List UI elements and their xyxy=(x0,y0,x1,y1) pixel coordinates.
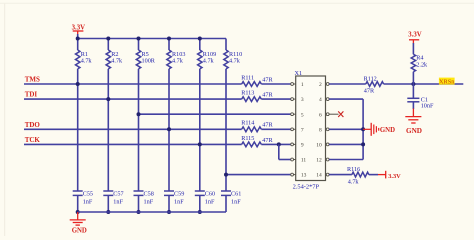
svg-text:C60: C60 xyxy=(205,190,215,197)
svg-text:3.3V: 3.3V xyxy=(72,24,85,31)
svg-text:GND: GND xyxy=(406,127,422,135)
svg-text:10: 10 xyxy=(316,143,322,149)
svg-text:4.7k: 4.7k xyxy=(172,58,184,65)
svg-text:R115: R115 xyxy=(241,135,254,142)
svg-text:9: 9 xyxy=(301,143,304,149)
svg-text:47R: 47R xyxy=(364,87,375,94)
svg-text:4.7k: 4.7k xyxy=(229,58,241,65)
svg-text:X1: X1 xyxy=(295,70,303,77)
svg-text:TDO: TDO xyxy=(25,121,41,129)
svg-text:47R: 47R xyxy=(262,76,273,83)
svg-text:3: 3 xyxy=(301,97,304,103)
svg-text:1: 1 xyxy=(301,82,304,88)
svg-text:TDI: TDI xyxy=(25,91,38,99)
svg-text:R116: R116 xyxy=(347,166,360,173)
svg-text:6: 6 xyxy=(319,112,322,118)
svg-text:47R: 47R xyxy=(262,122,273,129)
svg-text:1nF: 1nF xyxy=(174,198,184,205)
svg-text:47R: 47R xyxy=(262,92,273,99)
svg-text:2.2k: 2.2k xyxy=(416,61,428,68)
svg-text:2.54-2*7P: 2.54-2*7P xyxy=(293,183,320,190)
svg-text:5: 5 xyxy=(301,112,304,118)
svg-text:1nF: 1nF xyxy=(144,198,154,205)
svg-text:GND: GND xyxy=(380,127,395,134)
svg-text:C57: C57 xyxy=(113,190,123,197)
svg-text:R114: R114 xyxy=(241,120,254,127)
svg-text:13: 13 xyxy=(301,173,307,179)
svg-text:14: 14 xyxy=(316,173,322,179)
svg-text:8: 8 xyxy=(319,127,322,133)
svg-text:R112: R112 xyxy=(364,76,377,83)
svg-text:4: 4 xyxy=(319,97,322,103)
svg-text:3.3V: 3.3V xyxy=(388,173,401,180)
svg-text:1nF: 1nF xyxy=(83,198,93,205)
svg-text:100R: 100R xyxy=(142,58,156,65)
svg-text:XRSn: XRSn xyxy=(439,79,455,86)
svg-text:C61: C61 xyxy=(231,190,241,197)
svg-text:4.7k: 4.7k xyxy=(203,58,215,65)
svg-text:R111: R111 xyxy=(241,74,254,81)
svg-text:C55: C55 xyxy=(83,190,93,197)
svg-text:47R: 47R xyxy=(262,137,273,144)
svg-text:C59: C59 xyxy=(174,190,184,197)
svg-text:TCK: TCK xyxy=(25,136,41,144)
svg-text:3.3V: 3.3V xyxy=(408,31,421,38)
svg-text:4.7k: 4.7k xyxy=(348,179,360,186)
svg-text:1nF: 1nF xyxy=(231,198,241,205)
svg-text:GND: GND xyxy=(72,228,87,235)
svg-text:4.7k: 4.7k xyxy=(111,58,123,65)
svg-text:1nF: 1nF xyxy=(113,198,123,205)
svg-text:7: 7 xyxy=(301,127,304,133)
svg-text:10nF: 10nF xyxy=(421,102,434,109)
svg-text:C58: C58 xyxy=(144,190,154,197)
svg-text:TMS: TMS xyxy=(25,76,40,84)
svg-text:12: 12 xyxy=(316,158,322,164)
svg-text:2: 2 xyxy=(319,82,322,88)
svg-text:4.7k: 4.7k xyxy=(81,58,93,65)
svg-text:R113: R113 xyxy=(241,90,254,97)
svg-text:1nF: 1nF xyxy=(205,198,215,205)
svg-text:11: 11 xyxy=(301,158,307,164)
